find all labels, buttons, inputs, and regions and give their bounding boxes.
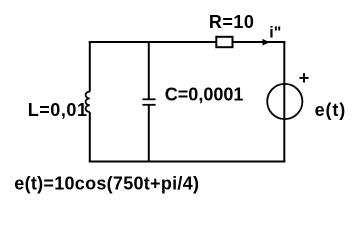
svg-text:C=0,0001: C=0,0001 (165, 85, 244, 105)
svg-text:e(t): e(t) (315, 100, 347, 120)
svg-text:e(t)=10cos(750t+pi/4): e(t)=10cos(750t+pi/4) (14, 174, 199, 194)
wire: right side through source (283, 41, 285, 163)
voltage source U1 circle (267, 84, 302, 119)
wire: middle branch upper (148, 42, 150, 99)
wire: middle branch lower (148, 105, 150, 162)
resistor R1 body (216, 37, 232, 47)
wire: left side lower segment (89, 112, 91, 163)
capacitor C1 top plate (142, 98, 155, 100)
svg-text:L=0,01: L=0,01 (28, 100, 88, 120)
inductor L1 coil (86, 92, 90, 112)
svg-text:+: + (299, 68, 310, 88)
wire: left side upper segment (89, 41, 91, 92)
capacitor C1 bottom plate (142, 104, 155, 106)
wire: top from node A to node B (89, 41, 285, 43)
svg-text:R=10: R=10 (209, 12, 255, 32)
current arrow i" (263, 39, 270, 46)
svg-text:i": i" (269, 25, 281, 42)
wire: bottom return (89, 161, 285, 163)
